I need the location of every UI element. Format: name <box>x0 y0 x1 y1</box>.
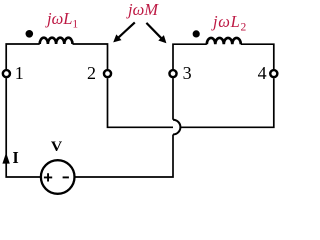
voltage source V circle <box>41 160 75 194</box>
svg-text:4: 4 <box>258 63 267 83</box>
wire: left-loop top from node 1 corner to inductor L1 <box>6 44 40 70</box>
wire: node 1 down the left side to bottom <box>6 78 41 177</box>
svg-text:1: 1 <box>15 63 24 83</box>
wire: node 2 down, right along middle to node 4 corner <box>108 78 274 127</box>
svg-text:jωM: jωM <box>126 0 159 19</box>
node 3 terminal circle <box>169 70 176 77</box>
polarity dot of L2 <box>193 30 200 37</box>
wire: source to right corner, up to crossover <box>75 135 174 178</box>
wire: L2 to node 4 corner <box>241 44 274 69</box>
polarity dot of L1 <box>26 30 34 38</box>
node 2 terminal circle <box>104 70 111 77</box>
crossover hop (white-backed arc over middle wire) <box>173 120 180 135</box>
minus sign of source <box>63 176 69 178</box>
mutual arrow right (to node 3 corner) <box>146 23 166 43</box>
plus sign of source <box>44 173 52 181</box>
wire: node 3 up to right-loop top, to inductor L2 <box>173 44 207 69</box>
node 4 terminal circle <box>270 70 277 77</box>
svg-text:V: V <box>51 139 63 155</box>
svg-text:3: 3 <box>183 63 192 83</box>
svg-text:jωL2: jωL2 <box>211 12 247 34</box>
wire: L1 to node 2 corner <box>73 44 108 70</box>
node 1 terminal circle <box>3 70 10 77</box>
svg-text:jωL1: jωL1 <box>45 9 78 31</box>
svg-text:I: I <box>13 148 19 167</box>
mutual arrow left (to node 2 corner) <box>113 22 135 42</box>
inductor L2 coil (4 humps) <box>207 38 241 44</box>
wire: crossover up to node 3 <box>172 78 174 120</box>
current arrow I (up) <box>2 153 9 164</box>
svg-text:2: 2 <box>87 63 96 83</box>
inductor L1 coil (4 humps) <box>40 38 73 44</box>
